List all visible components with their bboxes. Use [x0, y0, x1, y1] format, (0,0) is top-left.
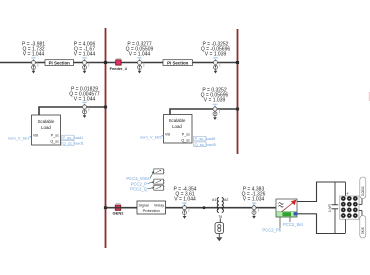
PV module: [340, 196, 359, 219]
svg-text:#2: #2: [224, 198, 228, 202]
svg-text:PCC2_Pb: PCC2_Pb: [262, 228, 281, 233]
svg-text:V = 1.034: V = 1.034: [243, 197, 265, 203]
svg-text:PCC2_Set: PCC2_Set: [283, 222, 304, 227]
measurement M7 labels: [173, 187, 196, 203]
measurement M6: [213, 104, 220, 120]
PI Section block 1: [45, 60, 74, 66]
svg-text:nom_V_bb1: nom_V_bb1: [8, 136, 30, 141]
svg-text:Signal: Signal: [139, 203, 149, 207]
svg-text:PI Section: PI Section: [167, 61, 189, 66]
bus2 junction load: [236, 108, 239, 111]
svg-text:Load: Load: [172, 124, 182, 129]
svg-text:Vrelay: Vrelay: [154, 203, 164, 207]
Goto tag Q_sc_load 2: [194, 142, 217, 147]
svg-text:PI Section: PI Section: [49, 61, 71, 66]
inverter block: [276, 199, 297, 217]
svg-text:V = 1.044: V = 1.044: [74, 51, 96, 57]
wire load1: [39, 107, 105, 115]
svg-text:1 [vF]: 1 [vF]: [328, 204, 332, 212]
DC link capacitor: [328, 182, 338, 234]
measurement M8: [252, 203, 259, 219]
PV module stub bottom: [345, 219, 347, 233]
scalable load 2: [164, 115, 193, 144]
svg-text:5K/6: 5K/6: [361, 227, 365, 234]
scope block 3: [154, 185, 165, 190]
svg-text:+: +: [346, 191, 349, 196]
resistor block 5K: [360, 216, 366, 239]
svg-text:Q_sc_load5: Q_sc_load5: [195, 142, 217, 147]
svg-text:Q_sc: Q_sc: [181, 138, 190, 142]
svg-text:P_sc: P_sc: [51, 133, 59, 137]
scope block 1: [154, 169, 165, 174]
measurement M1 labels: [22, 41, 45, 57]
svg-text:V = 1.044: V = 1.044: [23, 51, 45, 57]
bus bar 2: [237, 29, 239, 154]
bus1 junction top: [104, 61, 107, 64]
svg-text:Q_sc: Q_sc: [50, 139, 59, 143]
PCC2_P tag: [131, 181, 154, 186]
protection block: [137, 201, 166, 214]
junction dot bottom: [203, 206, 206, 209]
measurement M5 labels: [69, 86, 100, 102]
breaker Feeder_4: [110, 59, 128, 71]
PI Section block 2: [163, 60, 193, 66]
svg-text:GEN2: GEN2: [113, 210, 125, 215]
svg-text:#1: #1: [212, 198, 216, 202]
svg-text:Scalable: Scalable: [169, 118, 186, 123]
svg-text:V = 1.039: V = 1.039: [205, 51, 227, 57]
inverter ctrl stub Set: [283, 217, 304, 227]
PCC2_Vrms tag: [126, 171, 153, 181]
wire inverter + out: [297, 182, 346, 202]
bus bar 1: [105, 28, 107, 248]
svg-text:0.0001: 0.0001: [361, 186, 365, 196]
measurement M8 labels: [242, 187, 266, 203]
PV right port wires: [359, 199, 362, 216]
svg-text:Q_sc_load1: Q_sc_load1: [63, 140, 85, 145]
resistor block 0.0008: [360, 177, 366, 199]
svg-text:nom_V_bb5: nom_V_bb5: [140, 135, 162, 140]
svg-text:PCC2_Q: PCC2_Q: [130, 187, 147, 192]
measurement M5: [82, 102, 89, 118]
svg-text:V = 1.044: V = 1.044: [129, 51, 151, 57]
measurement M3 labels: [126, 41, 154, 57]
bus1 junction gen: [104, 206, 107, 209]
From tag nom_V_bb1: [8, 136, 32, 141]
transformer T6: [212, 198, 228, 219]
svg-text:V = 1.044: V = 1.044: [74, 96, 96, 102]
scope block 2: [154, 179, 165, 184]
svg-text:P_sc: P_sc: [182, 133, 190, 137]
wire top-middle feeder: [107, 62, 237, 64]
PCC2_Q tag: [130, 187, 154, 192]
svg-text:T6: T6: [218, 215, 222, 219]
wire transformer ground branch: [219, 219, 221, 223]
From tag nom_V_bb5: [140, 135, 164, 140]
measurement M4 labels: [201, 41, 231, 57]
Goto tag P_sc_load 2: [194, 136, 217, 141]
measurement M4: [213, 58, 220, 74]
bus2 junction top: [236, 61, 239, 64]
measurement M6 labels: [201, 87, 229, 103]
Goto tag P_sc_load: [62, 135, 85, 140]
inverter ctrl stub Pb: [262, 217, 281, 233]
Goto tag Q_sc_load: [62, 140, 85, 145]
svg-text:Scalable: Scalable: [38, 119, 55, 124]
svg-text:VB: VB: [33, 133, 38, 137]
bus1 junction load: [104, 106, 107, 109]
svg-text:PCC2_Vrms: PCC2_Vrms: [126, 176, 149, 181]
svg-text:Feeder_4: Feeder_4: [110, 66, 128, 71]
svg-text:V = 1.044: V = 1.044: [174, 197, 196, 203]
wire top-left feeder: [0, 62, 105, 64]
ground below RLC: [216, 234, 222, 242]
svg-text:P_sc_load5: P_sc_load5: [195, 136, 217, 141]
svg-text:Load: Load: [41, 125, 51, 130]
svg-text:PCC2_P: PCC2_P: [131, 181, 147, 186]
RLC branch block: [215, 223, 224, 234]
wire inverter - out: [297, 214, 346, 234]
measurement M2 labels: [74, 41, 96, 57]
measurement M7: [182, 203, 189, 219]
clipped element right edge: [369, 92, 370, 101]
breaker GEN2: [113, 204, 125, 216]
svg-text:V = 1.039: V = 1.039: [204, 97, 226, 103]
wire bottom main: [107, 207, 277, 209]
measurement M3: [137, 58, 144, 74]
svg-text:P_sc_load1: P_sc_load1: [63, 135, 85, 140]
measurement M2: [82, 58, 89, 74]
scalable load 1: [32, 115, 61, 145]
measurement M1: [31, 58, 38, 74]
svg-text:Protection: Protection: [143, 209, 160, 213]
svg-text:VB: VB: [165, 133, 170, 137]
wire load2: [170, 109, 237, 115]
PV module stub top: [346, 182, 350, 196]
